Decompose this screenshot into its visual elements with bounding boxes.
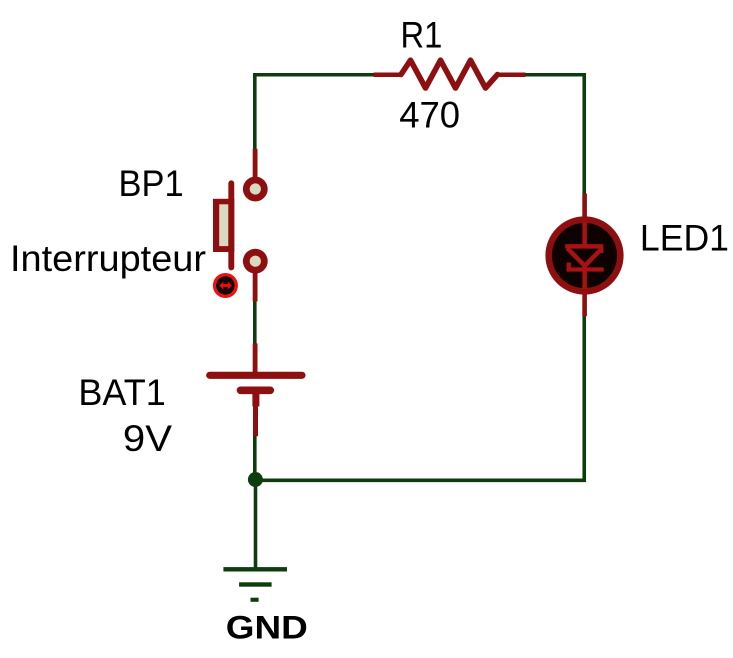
svg-text:GND: GND — [226, 609, 308, 645]
wire button-to-battery — [253, 301, 257, 345]
ground bar 1 — [223, 567, 287, 571]
pushbutton BP1 contact bar — [228, 183, 234, 267]
LED1 cathode line — [582, 264, 587, 289]
ground bar 3 — [251, 598, 259, 602]
resistor R1 zigzag — [401, 60, 498, 88]
svg-text:LED1: LED1 — [640, 217, 729, 259]
battery BAT1 negative stub — [252, 391, 259, 406]
svg-text:BP1: BP1 — [119, 162, 184, 204]
node junction dot — [248, 472, 263, 487]
pushbutton BP1 top terminal — [243, 177, 268, 202]
battery BAT1 top lead — [253, 343, 258, 372]
svg-text:BAT1: BAT1 — [78, 371, 165, 413]
LED1 cathode left tick — [567, 263, 571, 270]
svg-text:470: 470 — [399, 94, 460, 136]
wire battery-to-node — [253, 436, 257, 481]
wire right vertical lower — [582, 316, 586, 481]
svg-text:Interrupteur: Interrupteur — [10, 237, 206, 279]
battery BAT1 negative plate — [241, 386, 271, 394]
wire bottom horizontal — [253, 478, 586, 482]
pushbutton BP1 bottom lead — [253, 270, 258, 302]
wire top-right horizontal — [523, 73, 586, 77]
ground bar 2 — [239, 582, 272, 586]
pushbutton BP1 plunger body — [213, 199, 234, 252]
pushbutton BP1 bottom terminal — [243, 249, 268, 274]
LED1 triangle right side — [585, 250, 601, 266]
svg-text:R1: R1 — [401, 13, 443, 55]
pushbutton BP1 top lead — [253, 149, 258, 180]
battery BAT1 bottom lead — [253, 406, 258, 436]
resistor R1 lead left — [374, 72, 402, 77]
LED1 body circle — [549, 220, 621, 292]
LED1 base right tick — [599, 246, 603, 253]
resistor R1 lead right — [496, 72, 526, 77]
LED1 top lead — [582, 194, 587, 247]
wire top-left horizontal — [253, 73, 376, 77]
svg-text:9V: 9V — [123, 417, 172, 459]
LED1 triangle left side — [567, 248, 585, 265]
LED1 cathode bar — [567, 267, 604, 271]
wire left vertical — [253, 73, 257, 150]
pushbutton BP1 actuator arrow — [219, 282, 231, 290]
wire right vertical upper — [582, 73, 586, 195]
LED1 triangle base — [565, 244, 603, 249]
wire GND stem — [254, 480, 258, 569]
pushbutton BP1 actuator button — [216, 276, 235, 295]
LED1 bottom lead — [582, 264, 587, 316]
battery BAT1 positive plate — [210, 372, 302, 379]
LED1 anode line — [582, 222, 587, 247]
